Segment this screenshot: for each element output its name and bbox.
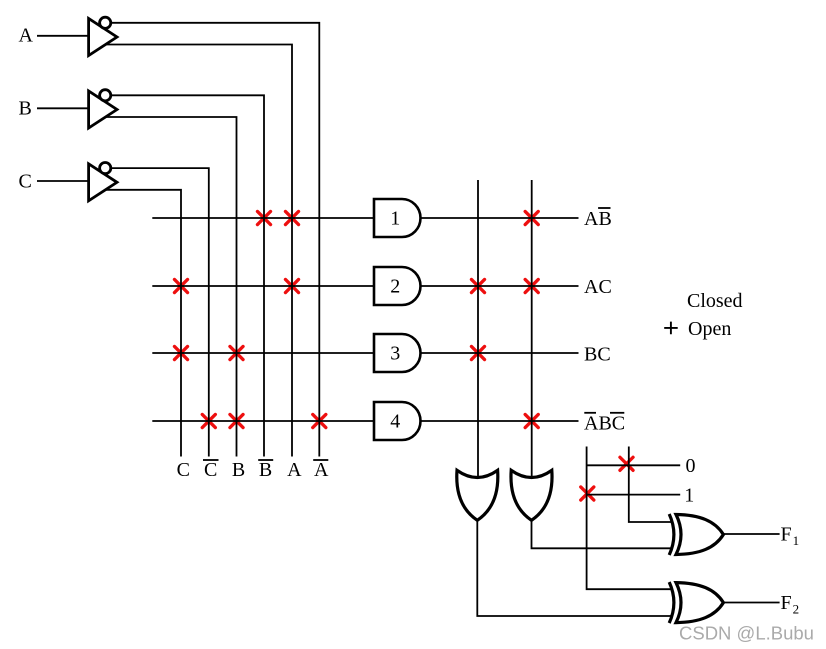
wire constant v1 to XOR2 upper input xyxy=(587,447,672,590)
svg-text:C: C xyxy=(204,459,217,481)
svg-text:A: A xyxy=(287,459,302,481)
wire OR2 input column xyxy=(531,180,533,478)
wire AND1 output xyxy=(421,217,579,219)
wire product row 3 xyxy=(152,352,374,354)
wire input C xyxy=(37,180,88,182)
wire OR1 input column xyxy=(477,180,479,478)
wire constant v2 to XOR1 upper input xyxy=(629,447,672,523)
cross row3 x OR1 column xyxy=(471,346,484,359)
svg-text:F: F xyxy=(781,523,792,545)
XOR gate F1 xyxy=(669,514,674,555)
wire constant 0 line xyxy=(587,464,681,466)
cross row2 x C xyxy=(174,279,187,292)
cross row1 x OR2 column xyxy=(525,211,538,224)
svg-text:ABC: ABC xyxy=(584,413,625,435)
svg-text:3: 3 xyxy=(390,342,400,364)
cross 1-line x v1 xyxy=(581,487,594,500)
wire product row 1 xyxy=(152,217,374,219)
wire product row 2 xyxy=(152,285,374,287)
svg-text:C: C xyxy=(177,459,190,481)
cross row4 x Cbar xyxy=(202,414,215,427)
cross row1 x A xyxy=(285,211,298,224)
svg-text:A: A xyxy=(19,25,34,47)
OR gate 2 (points down) xyxy=(511,470,552,520)
legend + Open xyxy=(664,322,678,335)
XOR gate F2 xyxy=(669,582,674,623)
cross row4 x B xyxy=(230,414,243,427)
svg-text:0: 0 xyxy=(686,455,696,477)
wire Abar output (bubble to column Abar) xyxy=(111,23,319,457)
svg-text:B: B xyxy=(259,459,272,481)
svg-text:2: 2 xyxy=(793,601,800,616)
inverter/buffer C xyxy=(89,164,117,201)
wire input A xyxy=(37,35,88,37)
cross 0-line x v2 xyxy=(620,457,633,470)
wire OR2 output to XOR1 lower input xyxy=(532,520,673,548)
wire AND3 output xyxy=(421,352,579,354)
cross row2 x OR1 column xyxy=(471,279,484,292)
svg-text:B: B xyxy=(19,98,32,120)
wire AND4 output xyxy=(421,420,579,422)
svg-text:AB: AB xyxy=(584,208,612,230)
AND gate 2 xyxy=(374,267,421,305)
wire C true output (to column C) xyxy=(105,190,182,457)
wire constant 1 line xyxy=(587,494,681,496)
svg-text:1: 1 xyxy=(390,207,400,229)
cross row3 x C xyxy=(174,346,187,359)
wire A true output (to column A) xyxy=(105,45,293,457)
wire OR1 output to XOR2 lower input xyxy=(477,520,672,616)
svg-text:BC: BC xyxy=(584,344,611,366)
cross row4 x OR2 column xyxy=(525,414,538,427)
cross row2 x A xyxy=(285,279,298,292)
wire B true output (to column B) xyxy=(105,117,237,457)
OR gate 1 (points down) xyxy=(457,470,498,520)
cross row3 x B xyxy=(230,346,243,359)
svg-text:C: C xyxy=(19,171,32,193)
svg-text:AC: AC xyxy=(584,276,612,298)
wire input B xyxy=(37,107,88,109)
AND gate 3 xyxy=(374,334,421,372)
wire XOR2 output xyxy=(723,602,779,604)
svg-text:2: 2 xyxy=(390,275,400,297)
wire AND2 output xyxy=(421,285,579,287)
svg-text:F: F xyxy=(781,592,792,614)
svg-text:4: 4 xyxy=(390,410,400,432)
cross row1 x Bbar xyxy=(257,211,270,224)
wire product row 4 xyxy=(152,420,374,422)
wire Cbar output (to column Cbar) xyxy=(111,168,209,456)
svg-text:Closed: Closed xyxy=(687,290,743,312)
svg-text:CSDN @L.Bubu: CSDN @L.Bubu xyxy=(679,623,814,644)
inverter/buffer B xyxy=(89,91,117,128)
AND gate 4 xyxy=(374,402,421,440)
cross row4 x Abar xyxy=(313,414,326,427)
svg-text:A: A xyxy=(314,459,329,481)
AND gate 1 xyxy=(374,199,421,237)
wire XOR1 output xyxy=(723,533,779,535)
svg-text:B: B xyxy=(232,459,245,481)
svg-text:1: 1 xyxy=(793,533,800,548)
svg-text:Open: Open xyxy=(688,318,731,340)
inverter/buffer A xyxy=(89,19,117,56)
wire Bbar output (to column Bbar) xyxy=(111,95,264,456)
svg-text:1: 1 xyxy=(684,484,694,506)
cross row2 x OR2 column xyxy=(525,279,538,292)
fuse crosses layer (under wires) xyxy=(174,211,633,500)
